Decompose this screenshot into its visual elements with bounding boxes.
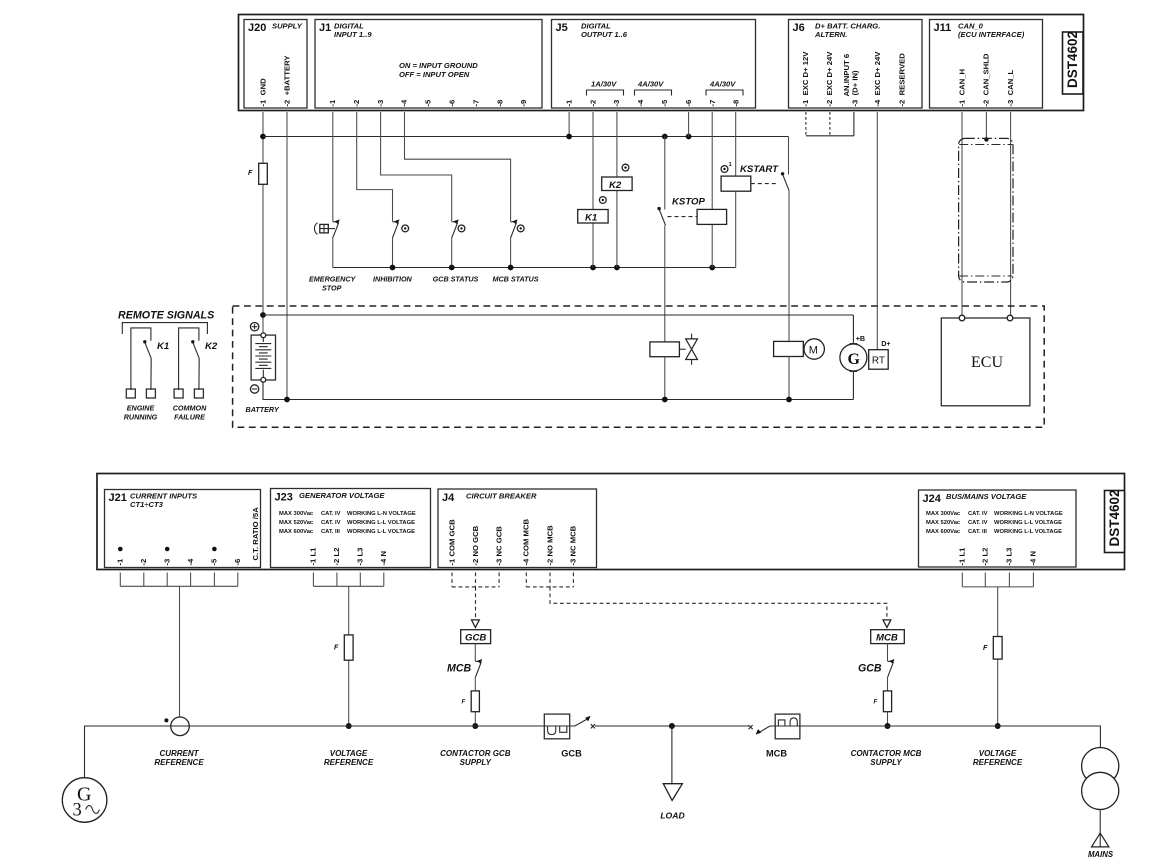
wire J5-3 through K2 coil to bus [616, 112, 618, 268]
svg-text:+B: +B [856, 334, 865, 343]
relay coil K1 [578, 210, 608, 224]
GCB box [461, 630, 491, 644]
svg-text:-1 L1: -1 L1 [309, 547, 318, 566]
svg-text:MAX 520Vac: MAX 520Vac [926, 520, 961, 526]
svg-text:ON = INPUT GROUND: ON = INPUT GROUND [399, 61, 478, 70]
svg-text:MCB: MCB [766, 749, 787, 759]
svg-text:-1: -1 [564, 99, 573, 107]
svg-text:J21: J21 [109, 492, 127, 504]
svg-text:J1: J1 [319, 22, 331, 34]
svg-text:-8: -8 [732, 99, 741, 107]
svg-text:WORKING L-N VOLTAGE: WORKING L-N VOLTAGE [347, 511, 416, 517]
svg-text:MAX 600Vac: MAX 600Vac [926, 529, 961, 535]
svg-text:VOLTAGE: VOLTAGE [330, 749, 368, 758]
svg-text:D+: D+ [881, 339, 890, 348]
connector J24 box [919, 490, 1077, 567]
svg-text:-6: -6 [684, 100, 693, 107]
battery minus rail wire [263, 380, 853, 400]
RT box [869, 350, 889, 370]
GCB aux switch blade [888, 659, 895, 677]
svg-text:CONTACTOR GCB: CONTACTOR GCB [440, 749, 511, 758]
junction node battery plus rail [260, 312, 266, 318]
main power bus generator side [85, 726, 545, 778]
svg-text:-3 CAN_L: -3 CAN_L [1006, 69, 1015, 106]
wire ground rail to KSTOP switch [664, 137, 666, 210]
MCB box [871, 630, 905, 644]
J5 rating bracket 4A/30V pins 4-5 [635, 80, 672, 96]
svg-text:-2: -2 [352, 100, 361, 107]
svg-text:-2: -2 [588, 100, 597, 107]
svg-text:-2: -2 [139, 559, 148, 566]
J21 pin labels 1..6 [116, 558, 243, 566]
GCB switch contact x [591, 724, 595, 728]
svg-text:-5: -5 [210, 558, 219, 566]
wire J1-2 jog to inhibition switch [357, 112, 393, 221]
svg-text:-1 L1: -1 L1 [958, 547, 967, 566]
svg-text:CAT. IV: CAT. IV [321, 511, 341, 517]
svg-text:-4: -4 [400, 99, 409, 107]
svg-text:CAT. IV: CAT. IV [321, 520, 341, 526]
digital input common bus wire [333, 267, 736, 269]
svg-text:SUPPLY: SUPPLY [460, 758, 492, 767]
GCB command arrowhead [472, 620, 480, 628]
svg-text:-2 L2: -2 L2 [332, 548, 341, 566]
KSTART lamp symbol with note 1 [721, 162, 732, 172]
CAN cable shield capsule [959, 138, 1013, 282]
main power bus middle [595, 725, 749, 727]
battery symbol [251, 333, 275, 382]
relay coil K2 [602, 177, 632, 191]
mains triangle [1092, 833, 1109, 847]
svg-text:SUPPLY: SUPPLY [272, 22, 303, 31]
main power bus mains side [770, 726, 1101, 748]
starter motor coil [774, 341, 804, 356]
dashed wire GCB command down [475, 587, 477, 619]
svg-text:BATTERY: BATTERY [246, 405, 280, 414]
connector J6 box [789, 20, 923, 109]
dashed link KSTOP blade to coil [668, 216, 698, 218]
junction node voltage ref / bus [346, 723, 352, 729]
svg-text:-9: -9 [519, 100, 528, 107]
J24 pin stub wires and bracket [962, 573, 1033, 587]
K1 remote contact pair bracket [131, 328, 151, 390]
svg-text:-3 (D+ IN): -3 (D+ IN) [851, 70, 860, 107]
J21 CT polarity dots pins 1,3,5 [118, 547, 217, 552]
junction node gcb supply / bus [472, 723, 478, 729]
wire J5-1 to ground rail [568, 112, 570, 137]
connector J21 box [105, 490, 261, 568]
svg-text:1A/30V: 1A/30V [591, 80, 617, 89]
junction node valve/minus rail [662, 397, 668, 403]
MCB status switch blade [511, 219, 518, 237]
svg-text:-4: -4 [636, 99, 645, 107]
wire J5-8 through KSTART coil to bus [735, 112, 737, 268]
svg-text:-5: -5 [424, 99, 433, 107]
svg-text:-1 EXC D+ 12V: -1 EXC D+ 12V [801, 51, 810, 107]
wire alternator to minus rail [852, 371, 854, 400]
inhibition switch wire to bus [392, 237, 394, 268]
svg-text:(ECU INTERFACE): (ECU INTERFACE) [958, 30, 1025, 39]
svg-text:F: F [334, 643, 339, 652]
svg-text:-7: -7 [471, 100, 480, 107]
svg-text:J4: J4 [442, 492, 455, 504]
svg-text:J24: J24 [923, 493, 942, 505]
engine interface dashed box [233, 306, 1045, 427]
svg-text:-2 EXC D+ 24V: -2 EXC D+ 24V [825, 51, 834, 107]
GCB status lamp symbol [458, 225, 465, 232]
J5 rating bracket 1A/30V pins 2-3 [587, 80, 624, 96]
MCB status lamp symbol [517, 225, 524, 232]
wire ground rail corner down to KSTART switch [788, 137, 790, 175]
K2 remote lower wire [198, 358, 200, 390]
junction node load [669, 723, 675, 729]
mains transformer upper circle [1082, 748, 1119, 785]
svg-text:-1: -1 [116, 558, 125, 566]
svg-text:DST4602: DST4602 [1107, 489, 1122, 546]
svg-text:-3: -3 [163, 559, 172, 566]
MCB switch barb [756, 729, 761, 735]
junction node J5-1 [566, 134, 572, 140]
connector J1 box [315, 20, 542, 109]
svg-text:M: M [809, 345, 818, 357]
battery plus rail wire [263, 314, 853, 316]
svg-text:4A/30V: 4A/30V [637, 80, 664, 89]
junction node minus rail / +BATTERY [284, 397, 290, 403]
svg-text:-7: -7 [708, 100, 717, 107]
wire J5-7 through KSTOP coil to bus [711, 112, 713, 268]
svg-text:J23: J23 [275, 492, 293, 504]
remote signals group bracket [122, 323, 207, 334]
ECU box [941, 315, 1030, 406]
wire J6-4 D+ down to RT [876, 112, 878, 350]
J1 pin labels 1..9 [328, 99, 528, 107]
svg-text:MAX 600Vac: MAX 600Vac [279, 529, 314, 535]
junction nodes on input bus [390, 265, 715, 271]
svg-text:K2: K2 [205, 341, 218, 352]
J4 GCB dashed stubs and bracket [452, 573, 499, 587]
fuse F generator voltage reference [334, 635, 353, 660]
svg-text:SUPPLY: SUPPLY [870, 758, 902, 767]
svg-text:COMMON: COMMON [173, 404, 207, 413]
svg-text:F: F [462, 699, 466, 706]
K1 lamp symbol [599, 197, 606, 204]
wire KSTOP switch down to gas valve [664, 225, 666, 342]
wire J11-1 CAN_H to ECU [961, 112, 963, 316]
svg-text:CAT. IV: CAT. IV [968, 511, 988, 517]
wire load drop [671, 726, 673, 784]
svg-text:-2 CAN_SHLD: -2 CAN_SHLD [982, 53, 991, 106]
emergency stop push button [314, 223, 335, 235]
K2 lamp symbol [622, 164, 629, 171]
svg-text:GCB STATUS: GCB STATUS [433, 275, 479, 284]
J24 pin labels [958, 547, 1038, 566]
svg-text:-2 RESERVED: -2 RESERVED [898, 53, 907, 107]
J23 pin stub wires and bracket [313, 573, 383, 587]
fuse F supply [248, 163, 267, 184]
svg-text:-4: -4 [186, 558, 195, 566]
svg-text:J5: J5 [556, 22, 568, 34]
wire J5-6 to ground rail [688, 112, 690, 137]
svg-text:-1 COM GCB: -1 COM GCB [447, 519, 456, 566]
MCB bus switch blade [759, 726, 770, 732]
fuse F mains voltage reference [983, 637, 1002, 660]
svg-text:-1: -1 [328, 99, 337, 107]
svg-text:CAT. IV: CAT. IV [968, 520, 988, 526]
battery plus terminal mark [250, 323, 258, 331]
mains transformer lower circle [1082, 772, 1119, 809]
bottom controller strip outer box [97, 474, 1125, 570]
emergency stop switch blade [333, 219, 340, 237]
svg-text:BUS/MAINS VOLTAGE: BUS/MAINS VOLTAGE [946, 492, 1027, 501]
junction node mcb supply / bus [885, 723, 891, 729]
ground rail wire [263, 136, 789, 138]
current transformer circle [171, 717, 190, 736]
svg-text:KSTART: KSTART [740, 164, 779, 175]
wire J21 bracket down to current transformer [179, 586, 181, 717]
J4 MCB dashed stubs and bracket [526, 573, 573, 587]
svg-text:-2 NO MCB: -2 NO MCB [545, 525, 554, 566]
svg-text:F: F [983, 643, 988, 652]
wire transformer to mains triangle [1099, 810, 1101, 847]
wire J5-2 through K1 coil to bus [592, 112, 594, 268]
svg-text:-1 GND: -1 GND [258, 78, 267, 107]
svg-text:K2: K2 [609, 180, 622, 191]
svg-text:J11: J11 [934, 22, 952, 34]
svg-text:-3 L3: -3 L3 [1005, 548, 1014, 566]
fuse F gcb supply [462, 691, 480, 712]
J21 pin stub wires and bracket [120, 573, 238, 587]
svg-text:-3 NC GCB: -3 NC GCB [494, 526, 503, 566]
wire starter motor to minus rail [788, 357, 790, 400]
svg-text:MAX 300Vac: MAX 300Vac [279, 511, 314, 517]
svg-text:ENGINE: ENGINE [127, 404, 155, 413]
svg-text:INHIBITION: INHIBITION [373, 275, 413, 284]
svg-text:MAX 520Vac: MAX 520Vac [279, 520, 314, 526]
J5 rating bracket 4A/30V pins 7-8 [706, 80, 743, 96]
svg-text:-3: -3 [612, 100, 621, 107]
J11 pin labels [957, 53, 1015, 106]
gas valve coil [650, 342, 680, 357]
KSTOP switch blade [657, 207, 665, 225]
J6 excitation bracket: dashed pins 1,2 solid pin 3 [806, 112, 854, 136]
svg-text:EMERGENCY: EMERGENCY [309, 275, 357, 284]
top controller strip outer box [239, 15, 1084, 111]
K2 remote contact pair bracket [179, 328, 199, 390]
GCB contactor [544, 714, 569, 739]
generator circle G 3ph [62, 778, 107, 823]
junction node shield [984, 137, 988, 141]
svg-text:REMOTE SIGNALS: REMOTE SIGNALS [118, 310, 215, 322]
svg-text:G: G [848, 351, 861, 368]
dashed link KSTART coil to switch [751, 183, 779, 185]
svg-text:CURRENT: CURRENT [159, 749, 199, 758]
connector J20 box [244, 20, 307, 109]
GCB status switch blade [452, 219, 459, 237]
J6 pin labels [801, 51, 907, 107]
svg-text:-5: -5 [660, 99, 669, 107]
junction node mains voltage ref / bus [995, 723, 1001, 729]
svg-text:REFERENCE: REFERENCE [324, 758, 374, 767]
svg-text:-6: -6 [448, 100, 457, 107]
remote terminal squares [126, 389, 203, 398]
wire aux switch to fuse to bus [474, 677, 476, 726]
svg-text:INPUT 1..9: INPUT 1..9 [334, 30, 372, 39]
MCB aux switch blade [475, 659, 482, 677]
gas valve symbol [679, 334, 697, 365]
wire J11-3 CAN_L to ECU [1010, 112, 1012, 316]
svg-text:-2 NO GCB: -2 NO GCB [471, 525, 480, 565]
svg-text:CONTACTOR MCB: CONTACTOR MCB [851, 749, 922, 758]
svg-text:GENERATOR VOLTAGE: GENERATOR VOLTAGE [299, 491, 385, 500]
wire emergency stop to bus [332, 237, 334, 268]
svg-text:REFERENCE: REFERENCE [973, 758, 1023, 767]
K1 remote lower wire [150, 358, 152, 390]
wire J20-1 GND down through fuse to battery plus rail [262, 112, 264, 333]
wire J1-3 jog to GCB status switch [381, 112, 452, 221]
svg-text:4A/30V: 4A/30V [709, 80, 736, 89]
svg-text:MAINS: MAINS [1088, 850, 1114, 859]
MCB contactor [775, 714, 800, 739]
wire J23 bracket down through fuse to bus [348, 586, 350, 726]
svg-text:STOP: STOP [322, 284, 342, 293]
svg-text:REFERENCE: REFERENCE [154, 758, 204, 767]
relay coil KSTART [721, 176, 751, 191]
charging alternator wire down from plus rail [852, 315, 854, 344]
svg-text:CT1÷CT3: CT1÷CT3 [130, 500, 164, 509]
starter motor M circle [804, 339, 824, 359]
svg-text:DST4602: DST4602 [1065, 31, 1080, 88]
svg-text:OUTPUT 1..6: OUTPUT 1..6 [581, 30, 628, 39]
wire J1-1 to emergency stop switch [332, 112, 334, 221]
svg-text:-8: -8 [495, 99, 504, 107]
battery minus terminal mark [250, 385, 258, 393]
svg-text:-4 COM MCB: -4 COM MCB [522, 519, 531, 566]
svg-text:RUNNING: RUNNING [124, 413, 158, 422]
junction node GND/ground-rail [260, 134, 266, 140]
svg-text:C.T. RATIO /5A: C.T. RATIO /5A [251, 507, 260, 561]
wire J20-2 +BATTERY down to battery minus rail [286, 112, 288, 400]
J4 pin labels [447, 519, 577, 566]
svg-text:MCB STATUS: MCB STATUS [492, 275, 538, 284]
wire GCB box to aux switch [474, 644, 476, 661]
svg-text:K1: K1 [585, 213, 597, 224]
connector J23 box [271, 489, 431, 568]
svg-text:ALTERN.: ALTERN. [814, 30, 847, 39]
svg-text:WORKING L-L VOLTAGE: WORKING L-L VOLTAGE [347, 529, 415, 535]
CT polarity dot [164, 718, 168, 722]
J5 pin labels 1..8 [564, 99, 740, 107]
J23 pin labels [309, 547, 388, 566]
svg-text:-1 CAN_H: -1 CAN_H [957, 68, 966, 106]
connector J11 box [930, 20, 1043, 109]
wire J24 bracket down through fuse to bus [997, 587, 999, 726]
inhibition lamp symbol [402, 225, 409, 232]
junction node KSTOP branch on ground rail [662, 134, 668, 140]
svg-text:CAT. III: CAT. III [968, 529, 987, 535]
GCB status switch wire to bus [451, 237, 453, 268]
svg-text:ECU: ECU [971, 354, 1003, 371]
wire J1-4 jog to MCB status switch [405, 112, 511, 221]
svg-text:-3 NC MCB: -3 NC MCB [569, 525, 578, 565]
wire J11-2 CAN_SHLD to shield [985, 112, 987, 139]
svg-text:CAT. III: CAT. III [321, 529, 340, 535]
GCB bus switch blade [570, 719, 588, 726]
svg-text:KSTOP: KSTOP [672, 197, 705, 208]
load arrow [663, 784, 682, 801]
dashed wire MCB command across [550, 587, 887, 619]
svg-text:-2 +BATTERY: -2 +BATTERY [282, 55, 291, 106]
svg-text:GCB: GCB [465, 633, 486, 644]
DST4602 label box top [1063, 31, 1084, 94]
svg-text:J20: J20 [248, 22, 266, 34]
svg-text:F: F [874, 699, 878, 706]
svg-text:J6: J6 [793, 22, 805, 34]
junction node J5-6 on ground rail [686, 134, 692, 140]
svg-text:MAX 300Vac: MAX 300Vac [926, 511, 961, 517]
charging alternator G circle [840, 344, 867, 372]
svg-text:WORKING L-N VOLTAGE: WORKING L-N VOLTAGE [994, 511, 1063, 517]
svg-text:FAILURE: FAILURE [174, 413, 205, 422]
svg-text:-3 L3: -3 L3 [356, 548, 365, 566]
svg-text:F: F [248, 168, 253, 177]
svg-text:WORKING L-L VOLTAGE: WORKING L-L VOLTAGE [994, 520, 1062, 526]
svg-text:LOAD: LOAD [660, 811, 684, 821]
svg-text:RT: RT [872, 356, 885, 367]
fuse F mcb supply [874, 691, 892, 712]
svg-text:VOLTAGE: VOLTAGE [979, 749, 1017, 758]
svg-text:MCB: MCB [447, 663, 471, 675]
GCB switch barb [585, 716, 590, 722]
svg-text:-3: -3 [376, 100, 385, 107]
KSTART switch blade [781, 172, 789, 190]
svg-text:MCB: MCB [876, 633, 898, 644]
connector J4 box [438, 489, 597, 568]
connector J5 box [552, 20, 756, 109]
wire KSTART switch down to starter motor [788, 190, 790, 342]
svg-text:-6: -6 [233, 559, 242, 566]
inhibition switch blade [393, 219, 400, 237]
MCB status switch wire to bus [510, 237, 512, 268]
svg-text:-4 N: -4 N [1029, 551, 1038, 566]
svg-text:3: 3 [73, 801, 82, 821]
svg-text:WORKING L-L VOLTAGE: WORKING L-L VOLTAGE [347, 520, 415, 526]
svg-text:K1: K1 [157, 341, 169, 352]
DST4602 label box bottom [1105, 489, 1125, 552]
svg-text:CIRCUIT BREAKER: CIRCUIT BREAKER [466, 492, 537, 501]
svg-text:WORKING L-L VOLTAGE: WORKING L-L VOLTAGE [994, 529, 1062, 535]
svg-text:-4 EXC D+ 24V: -4 EXC D+ 24V [873, 51, 882, 107]
svg-text:-2 L2: -2 L2 [981, 548, 990, 566]
svg-text:OFF = INPUT OPEN: OFF = INPUT OPEN [399, 70, 470, 79]
svg-text:GCB: GCB [858, 663, 882, 675]
relay coil KSTOP [697, 209, 727, 224]
wire MCB box to aux switch [887, 644, 889, 661]
K2 remote switch blade [191, 340, 199, 358]
MCB bus switch contact x [749, 725, 753, 729]
K1 remote switch blade [143, 340, 151, 358]
svg-text:-4 N: -4 N [379, 551, 388, 566]
wire valve to minus rail [664, 357, 666, 400]
junction node motor/minus rail [786, 397, 792, 403]
svg-text:GCB: GCB [561, 749, 582, 759]
wire aux switch to fuse to bus [887, 677, 889, 726]
MCB command arrowhead [883, 620, 891, 628]
